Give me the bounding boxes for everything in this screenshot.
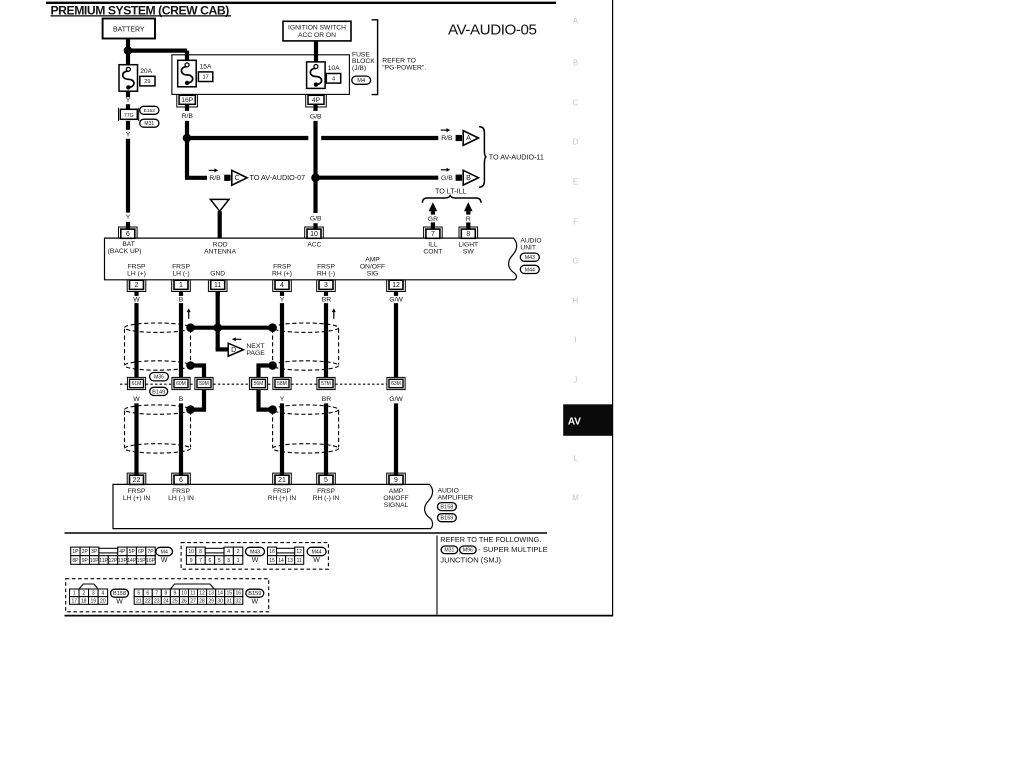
battery B1 (103, 19, 155, 39)
svg-text:R/B: R/B (441, 135, 453, 142)
svg-text:M43: M43 (525, 255, 535, 261)
svg-text:AV-AUDIO-05: AV-AUDIO-05 (448, 22, 536, 39)
svg-text:BR: BR (322, 396, 332, 403)
svg-text:B158: B158 (113, 591, 126, 597)
svg-text:AUDIO: AUDIO (438, 487, 459, 494)
svg-text:11: 11 (214, 282, 221, 289)
frame: footer divider vertical (436, 536, 438, 615)
svg-text:17: 17 (71, 598, 77, 604)
audio unit pin 3 (317, 280, 336, 291)
wire fuse 20A to connector 77G (126, 91, 130, 97)
svg-text:FRSP: FRSP (128, 488, 146, 495)
svg-text:B159: B159 (440, 516, 453, 522)
svg-text:M31: M31 (144, 121, 154, 127)
direction arrow to next page (235, 338, 242, 340)
shield tie wire (GND to both shields) (191, 326, 273, 330)
wire R/B elbow to arrow C (185, 136, 189, 178)
svg-text:ILL: ILL (428, 241, 438, 248)
svg-text:3: 3 (92, 591, 95, 597)
svg-text:4P: 4P (312, 97, 321, 104)
connector view B158 grid (70, 589, 80, 597)
svg-text:10P: 10P (90, 558, 100, 564)
svg-text:C: C (573, 99, 579, 108)
svg-text:SIGNAL: SIGNAL (384, 502, 409, 509)
svg-text:D: D (573, 138, 579, 147)
svg-text:W: W (133, 396, 140, 403)
svg-text:AMP: AMP (389, 488, 404, 495)
dashed group box M43/M44 (181, 543, 328, 570)
arrow up R (light sw feed) (464, 202, 473, 211)
svg-text:B159: B159 (248, 591, 261, 597)
svg-text:20A: 20A (140, 68, 152, 75)
keyway roof on B158 (79, 584, 98, 589)
svg-text:58M: 58M (277, 381, 287, 387)
svg-text:CONT: CONT (423, 248, 442, 255)
svg-text:BAT: BAT (122, 241, 135, 248)
connector view oval M43 (246, 547, 265, 555)
svg-text:10: 10 (188, 549, 194, 555)
audio unit pin 1 (172, 280, 191, 291)
svg-text:11: 11 (190, 591, 195, 597)
svg-text:15: 15 (269, 558, 275, 564)
svg-text:W: W (251, 599, 258, 606)
fuse F1 20A (119, 65, 138, 92)
wire junction to fuse 15A (horizontal) (126, 48, 187, 52)
svg-text:16: 16 (235, 591, 241, 597)
off-page arrow B (456, 175, 462, 181)
svg-text:LH (+): LH (+) (127, 271, 146, 278)
svg-text:7: 7 (199, 558, 202, 564)
fuse block connector oval M4 (352, 76, 371, 84)
svg-text:21: 21 (136, 598, 142, 604)
shield cylinder upper right (FRSP RH pair) (273, 323, 339, 332)
svg-text:M36: M36 (154, 375, 164, 381)
svg-text:C: C (234, 175, 239, 182)
svg-text:L: L (573, 454, 578, 463)
audio unit pin 10 (305, 227, 324, 238)
svg-text:FRSP: FRSP (273, 488, 291, 495)
svg-text:10: 10 (181, 591, 187, 597)
svg-text:Y: Y (126, 97, 131, 104)
frame: right border line (612, 0, 614, 617)
svg-text:LH (-) IN: LH (-) IN (168, 495, 194, 502)
svg-text:4: 4 (227, 549, 230, 555)
svg-text:8P: 8P (72, 558, 79, 564)
audio unit U1 box (105, 238, 517, 280)
svg-text:G/W: G/W (389, 396, 403, 403)
svg-text:REFER TO THE FOLLOWING.: REFER TO THE FOLLOWING. (440, 535, 541, 544)
svg-text:B149: B149 (152, 389, 165, 395)
svg-text:2P: 2P (82, 549, 89, 555)
SMJ dashed tie line (120, 383, 127, 385)
frame: bottom border line (65, 615, 613, 617)
svg-text:25: 25 (172, 598, 178, 604)
wire stub R to pin 8 (466, 222, 470, 229)
direction arrow up beside BR wire (333, 311, 335, 319)
shield drain staple right (through 56M) (259, 366, 273, 410)
rod antenna symbol (210, 199, 229, 211)
svg-text:ACC OR ON: ACC OR ON (298, 32, 336, 39)
svg-text:LIGHT: LIGHT (458, 241, 478, 248)
svg-text:LH (-): LH (-) (172, 271, 189, 278)
svg-text:RH (-): RH (-) (317, 271, 335, 278)
svg-text:PAGE: PAGE (246, 350, 265, 357)
svg-text:12: 12 (392, 282, 400, 289)
connector oval M36 (150, 373, 169, 381)
svg-text:15: 15 (226, 591, 232, 597)
svg-text:77G: 77G (124, 113, 134, 119)
svg-text:15A: 15A (200, 63, 212, 70)
svg-text:J: J (574, 376, 578, 385)
svg-text:SW: SW (463, 248, 474, 255)
svg-text:W: W (116, 599, 123, 606)
footnote oval M31 (441, 546, 458, 554)
svg-text:11P: 11P (99, 558, 108, 564)
wire FRSP LH (-) B upper run (179, 303, 183, 378)
arrow up GR (ill cont feed) (429, 202, 438, 211)
junction dots on shields (186, 323, 195, 332)
audio unit pin 11 (208, 280, 227, 291)
wire ignition switch to fuse 10A (314, 41, 318, 63)
svg-text:W: W (161, 557, 168, 564)
svg-text:FRSP: FRSP (172, 488, 190, 495)
off-page arrow A (456, 135, 462, 141)
wire FRSP LH (+) W upper run (134, 303, 138, 378)
shield drain staple left (through 59M) (191, 366, 205, 410)
amplifier pin 9 (387, 473, 406, 484)
svg-text:18: 18 (81, 598, 87, 604)
keyway roof on B159 (170, 584, 214, 589)
svg-text:FRSP: FRSP (128, 264, 146, 271)
svg-text:63M: 63M (391, 381, 401, 387)
connector view M4 grid (71, 547, 80, 556)
svg-text:13: 13 (287, 558, 293, 564)
svg-text:Y: Y (126, 131, 131, 138)
svg-text:- SUPER MULTIPLE: - SUPER MULTIPLE (478, 545, 547, 554)
svg-text:AMP: AMP (365, 257, 380, 264)
svg-text:10: 10 (310, 231, 318, 238)
svg-text:1: 1 (179, 282, 183, 289)
svg-text:R/B: R/B (182, 113, 194, 120)
off-page arrow C (224, 175, 230, 181)
connector view M44 grid (268, 547, 277, 556)
svg-text:TO LT-ILL: TO LT-ILL (435, 186, 467, 195)
SMJ connector 61M (127, 377, 145, 389)
connector view oval B159 (246, 589, 264, 597)
svg-text:NEXT: NEXT (246, 343, 264, 350)
svg-text:61M: 61M (132, 381, 142, 387)
svg-text:7P: 7P (147, 549, 154, 555)
svg-text:12: 12 (199, 591, 205, 597)
AV section tab (563, 404, 612, 436)
svg-text:B: B (179, 396, 184, 403)
svg-text:ANTENNA: ANTENNA (204, 248, 236, 255)
audio unit pin 8 (459, 227, 478, 238)
audio unit pin 4 (273, 280, 292, 291)
svg-text:M44: M44 (312, 549, 322, 555)
svg-text:W: W (252, 557, 259, 564)
direction arrow on R/B branch (209, 169, 216, 171)
svg-text:B158: B158 (440, 505, 453, 511)
wire G/B horizontal to arrow B (316, 176, 439, 180)
svg-text:6: 6 (146, 591, 149, 597)
audio unit pin 6 (119, 227, 138, 238)
svg-text:E: E (573, 178, 578, 187)
svg-text:AUDIO: AUDIO (520, 238, 541, 245)
connector view B159 grid (134, 589, 143, 597)
off-page arrow D next page (228, 343, 243, 356)
svg-text:13: 13 (208, 591, 214, 597)
audio unit connector oval M44 (520, 265, 539, 273)
svg-text:14P: 14P (127, 558, 137, 564)
wire antenna to audio unit (218, 211, 222, 238)
svg-text:LH (+) IN: LH (+) IN (123, 495, 150, 502)
connector 16P below fuse block (177, 95, 198, 107)
wire FRSP LH (+) W lower run (134, 403, 138, 475)
amplifier pin 6 (172, 473, 191, 484)
svg-text:26: 26 (181, 598, 187, 604)
amplifier pin 21 (273, 473, 292, 484)
svg-text:IGNITION SWITCH: IGNITION SWITCH (288, 25, 346, 32)
svg-text:M4: M4 (357, 78, 365, 84)
svg-text:56M: 56M (254, 381, 264, 387)
svg-text:(BACK UP): (BACK UP) (108, 248, 142, 255)
amplifier connector oval B159 (438, 514, 457, 522)
svg-text:JUNCTION (SMJ): JUNCTION (SMJ) (440, 556, 501, 565)
wire stubs below audio unit pins (134, 292, 138, 296)
svg-text:4: 4 (101, 591, 104, 597)
connector 4P below fuse block (306, 95, 327, 107)
svg-text:6: 6 (209, 558, 212, 564)
wire AMP ON/OFF G/W lower run (394, 403, 398, 475)
wire 16P down, colour R/B (185, 104, 189, 111)
svg-text:14: 14 (278, 558, 284, 564)
svg-text:17: 17 (202, 75, 208, 81)
svg-text:16P: 16P (146, 558, 156, 564)
junction dot G/B branch (311, 173, 320, 182)
svg-text:ON/OFF: ON/OFF (360, 264, 385, 271)
junction dot R/B branch (183, 134, 192, 143)
audio unit pin 12 (387, 280, 406, 291)
svg-text:TO AV-AUDIO-11: TO AV-AUDIO-11 (489, 152, 544, 161)
svg-text:4: 4 (280, 282, 284, 289)
svg-text:GND: GND (210, 271, 225, 278)
amplifier connector oval B158 (438, 503, 457, 511)
svg-text:7: 7 (431, 231, 435, 238)
shield cylinder lower left (125, 405, 191, 414)
svg-text:M: M (572, 494, 579, 503)
svg-text:3: 3 (324, 282, 328, 289)
svg-text:10A: 10A (328, 65, 340, 72)
svg-text:2: 2 (237, 549, 240, 555)
svg-text:A: A (573, 17, 579, 26)
shield cylinder lower right (273, 405, 339, 414)
brace to AV-AUDIO-11 (479, 127, 487, 188)
svg-text:I: I (574, 336, 576, 345)
wire FRSP RH (+) Y upper run (280, 303, 284, 378)
svg-text:G: G (572, 257, 578, 266)
svg-text:AMPLIFIER: AMPLIFIER (438, 494, 473, 501)
dashed group box B158/B159 (66, 579, 269, 612)
wire 77G down, colour Y (126, 121, 130, 130)
wire FRSP RH (-) BR upper run (324, 303, 328, 378)
ignition switch SW1 (283, 21, 351, 41)
svg-text:RH (+) IN: RH (+) IN (268, 495, 297, 502)
svg-text:A: A (466, 135, 471, 142)
svg-text:M96: M96 (463, 548, 473, 554)
svg-text:M44: M44 (525, 267, 535, 273)
svg-text:FRSP: FRSP (317, 488, 335, 495)
svg-text:29: 29 (144, 79, 150, 85)
svg-text:FRSP: FRSP (317, 264, 335, 271)
svg-text:B: B (466, 175, 471, 182)
svg-text:3: 3 (227, 558, 230, 564)
svg-text:RH (-) IN: RH (-) IN (313, 495, 340, 502)
svg-text:"PG-POWER".: "PG-POWER". (382, 65, 426, 72)
svg-text:9: 9 (190, 558, 193, 564)
svg-text:4: 4 (332, 76, 335, 82)
fuse F3 10A (307, 62, 326, 89)
svg-text:5: 5 (324, 477, 328, 484)
svg-text:3P: 3P (91, 549, 98, 555)
svg-text:14: 14 (217, 591, 223, 597)
shield cylinder upper left (FRSP LH pair) (125, 323, 191, 332)
svg-text:8: 8 (199, 549, 202, 555)
svg-text:H: H (573, 297, 579, 306)
svg-text:32: 32 (235, 598, 241, 604)
wire R/B horizontal to arrow A (gap at G/B crossing) (187, 136, 308, 140)
svg-text:FRSP: FRSP (172, 264, 190, 271)
wire GND from pin 11 to next-page arrow (216, 292, 220, 350)
svg-text:1: 1 (237, 558, 240, 564)
svg-text:B: B (573, 59, 578, 68)
svg-text:(J/B): (J/B) (352, 65, 366, 72)
svg-text:UNIT: UNIT (520, 245, 536, 252)
fuse block (J/B) box (172, 55, 350, 95)
svg-text:ACC: ACC (307, 241, 321, 248)
frame: footer separator line (65, 532, 548, 534)
svg-text:M43: M43 (250, 549, 260, 555)
svg-text:9: 9 (394, 477, 398, 484)
svg-text:G/B: G/B (310, 114, 322, 121)
svg-text:59M: 59M (199, 381, 209, 387)
connector oval E152 (140, 106, 159, 114)
svg-text:REFER TO: REFER TO (382, 58, 416, 65)
SMJ connector 56M (249, 377, 267, 389)
svg-text:8: 8 (164, 591, 167, 597)
svg-text:5: 5 (218, 558, 221, 564)
wire FRSP RH (+) Y lower run (280, 403, 284, 475)
svg-text:D: D (231, 347, 236, 354)
svg-text:9P: 9P (82, 558, 89, 564)
audio unit pin 7 (424, 227, 443, 238)
amplifier pin 22 (127, 473, 146, 484)
SMJ connector 60M (172, 377, 190, 389)
svg-text:20: 20 (100, 598, 106, 604)
svg-text:M4: M4 (160, 549, 168, 555)
fuse F2 15A (178, 60, 197, 87)
svg-text:AV: AV (568, 417, 581, 428)
amplifier pin 5 (317, 473, 336, 484)
wire FRSP LH (-) B lower run (179, 403, 183, 475)
svg-text:31: 31 (226, 598, 232, 604)
svg-text:Y: Y (280, 297, 285, 304)
svg-text:5: 5 (137, 591, 140, 597)
connector view oval M4 (156, 547, 173, 555)
svg-text:16P: 16P (181, 97, 193, 104)
wire 4P down, colour G/B (313, 104, 317, 111)
svg-text:B: B (179, 297, 184, 304)
audio unit pin 2 (127, 280, 146, 291)
junction dot battery feed (124, 46, 133, 55)
svg-text:23: 23 (154, 598, 160, 604)
svg-text:FRSP: FRSP (273, 264, 291, 271)
svg-text:22: 22 (145, 598, 151, 604)
direction arrow on G/B to B (441, 169, 448, 171)
svg-text:11: 11 (297, 558, 302, 564)
svg-text:12P: 12P (109, 558, 119, 564)
svg-text:G/B: G/B (441, 175, 453, 182)
page frame: top rule (46, 2, 556, 4)
svg-text:R/B: R/B (209, 175, 221, 182)
svg-text:57M: 57M (321, 381, 331, 387)
svg-text:22: 22 (133, 477, 141, 484)
svg-text:M31: M31 (444, 548, 454, 554)
audio amplifier U2 box (113, 484, 433, 528)
svg-text:9: 9 (174, 591, 177, 597)
svg-text:BR: BR (322, 297, 332, 304)
svg-text:W: W (133, 297, 140, 304)
wire AMP ON/OFF G/W upper run (394, 303, 398, 378)
connector 77G (E152/M31 pass-through) (119, 108, 139, 121)
svg-text:1: 1 (73, 591, 76, 597)
svg-text:2: 2 (135, 282, 139, 289)
wire stub GR to pin 7 (431, 222, 435, 229)
svg-text:60M: 60M (176, 381, 186, 387)
svg-text:G/B: G/B (310, 216, 322, 223)
SMJ connector 63M (387, 377, 405, 389)
svg-text:W: W (313, 557, 320, 564)
svg-text:19: 19 (91, 598, 97, 604)
connector view M43 grid (186, 547, 195, 556)
svg-text:27: 27 (190, 598, 196, 604)
svg-text:8: 8 (466, 231, 470, 238)
SMJ connector 58M (273, 377, 291, 389)
svg-text:12: 12 (296, 549, 302, 555)
svg-text:29: 29 (208, 598, 214, 604)
connector oval M31 (left) (140, 119, 159, 127)
connector view oval B158 (111, 589, 129, 597)
svg-text:1P: 1P (72, 549, 79, 555)
svg-text:G/W: G/W (389, 297, 403, 304)
svg-text:7: 7 (155, 591, 158, 597)
fuse block bracket (372, 20, 378, 95)
footnote oval M96 (460, 546, 477, 554)
svg-text:13P: 13P (118, 558, 128, 564)
svg-text:2: 2 (82, 591, 85, 597)
svg-text:RH (+): RH (+) (272, 271, 292, 278)
svg-text:Y: Y (280, 396, 285, 403)
svg-text:4P: 4P (119, 549, 126, 555)
svg-text:ROD: ROD (213, 241, 228, 248)
svg-text:Y: Y (126, 214, 131, 221)
connector view oval M44 (307, 547, 326, 555)
svg-text:ON/OFF: ON/OFF (383, 495, 408, 502)
svg-text:16: 16 (269, 549, 275, 555)
svg-text:F: F (573, 218, 578, 227)
svg-text:30: 30 (217, 598, 223, 604)
connector oval B149 (150, 387, 168, 395)
